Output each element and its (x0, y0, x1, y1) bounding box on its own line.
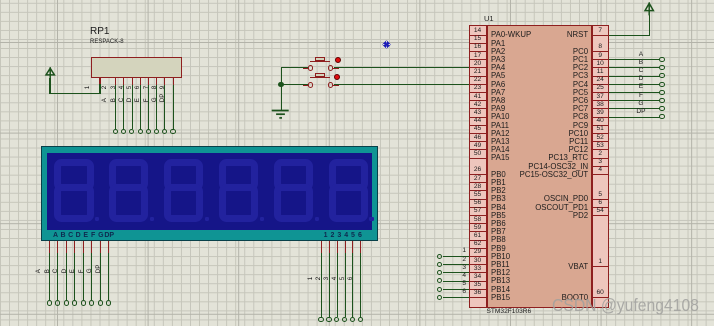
U1 pin 35 PB14 (469, 289, 486, 290)
display segment pin DP: stub, wire, label, terminal (108, 241, 109, 253)
U1 pin 38 PC7 (592, 108, 609, 109)
U1 pin 60 BOOT0 (592, 297, 609, 298)
U1 part number label STM32F103R6 (487, 309, 532, 316)
U1 pin 51 PC10 (592, 133, 609, 134)
6-digit seven-segment display module frame (41, 146, 379, 241)
wire: button 2 to U1 PA6 (334, 84, 469, 85)
wire: button 1 to U1 PA4 (334, 67, 469, 68)
U1 pin 15 PA1 (469, 43, 486, 44)
U1 pin 37 PC6 (592, 100, 609, 101)
display digit-select pin 2: stub, wire, label, terminal (329, 241, 330, 253)
U1 pin 6 OSCOUT_PD1 (592, 207, 609, 208)
wire + terminal: net 3 from U1 PB12 (443, 272, 470, 273)
display digit pin text 123456 (320, 232, 332, 239)
display digit-select pin 6: stub, wire, label, terminal (360, 241, 361, 253)
RP1 pin 3 (B): stub, wire, labels, terminal (123, 78, 124, 85)
wire + terminal: net 6 from U1 PB15 (443, 297, 470, 298)
watermark text (552, 297, 699, 315)
U1 pin 39 PC8 (592, 117, 609, 118)
U1 pin 28 PB2 (469, 190, 486, 191)
wire + terminal: net E from U1 PC5 (609, 92, 660, 93)
display digit 3 (seven segments + DP) (164, 159, 203, 191)
wire: horizontal corner to RP1 pin 1 (49, 93, 100, 94)
display segment pin F: stub, wire, label, terminal (91, 241, 92, 253)
display segment pin A: stub, wire, label, terminal (49, 241, 50, 253)
U1 pin 57 PB5 (469, 215, 486, 216)
U1 pin 56 PB4 (469, 207, 486, 208)
U1 pin 54 PD2 (592, 215, 609, 216)
wire: NRST arrow vertical (649, 15, 650, 36)
U1 pin 61 PB8 (469, 240, 486, 241)
wire: vertical up to RP1 pin 1 stub (99, 84, 100, 95)
wire + terminal: net C from U1 PC3 (609, 76, 660, 77)
U1 body (487, 25, 593, 308)
U1 pin 3 PC14-OSC32_IN (592, 166, 609, 167)
RP1 pin 2 (A): stub, wire, labels, terminal (115, 78, 116, 85)
wire + terminal: net F from U1 PC6 (609, 100, 660, 101)
microcontroller U1 reference label (484, 15, 494, 23)
display segment pin D: stub, wire, label, terminal (74, 241, 75, 253)
U1 pin 1 VBAT (592, 266, 609, 267)
RP1 pin 4 (C): stub, wire, labels, terminal (132, 78, 133, 85)
display digit 4 (seven segments + DP) (219, 159, 258, 191)
U1 pin 17 PA3 (469, 59, 486, 60)
U1 pin 33 PB12 (469, 272, 486, 273)
U1 pin 30 PB11 (469, 264, 486, 265)
U1 pin 2 PC13_RTC (592, 158, 609, 159)
U1 pin 42 PA9 (469, 108, 486, 109)
U1 pin 52 PC11 (592, 141, 609, 142)
junction node (278, 82, 284, 88)
U1 pin 58 PB6 (469, 223, 486, 224)
U1 pin 7 NRST (592, 35, 609, 36)
display segment pin E: stub, wire, label, terminal (83, 241, 84, 253)
display digit-select pin 5: stub, wire, label, terminal (352, 241, 353, 253)
U1 pin 26 PB0 (469, 174, 486, 175)
U1 pin 23 PA7 (469, 92, 486, 93)
display digit 6 (seven segments + DP) (329, 159, 368, 191)
U1 pin 29 PB10 (469, 256, 486, 257)
U1 pin 20 PA4 (469, 67, 486, 68)
U1 pin 49 PA14 (469, 149, 486, 150)
wire + terminal: net 2 from U1 PB11 (443, 264, 470, 265)
RP1 pin 1 stub (99, 78, 100, 84)
RP1 pin 7 (F): stub, wire, labels, terminal (156, 78, 157, 85)
U1 pin 36 PB15 (469, 297, 486, 298)
U1 pin 8 PC0 (592, 51, 609, 52)
U1 pin 43 PA10 (469, 117, 486, 118)
power symbol (VCC arrow) at NRST (643, 0, 659, 16)
U1 pin 46 PA13 (469, 141, 486, 142)
U1 pin 21 PA5 (469, 76, 486, 77)
U1 pin 41 PA8 (469, 100, 486, 101)
U1 pin 22 PA6 (469, 84, 486, 85)
U1 pin 11 PC3 (592, 76, 609, 77)
U1 pin 27 PB1 (469, 182, 486, 183)
U1 left pin-number band (469, 25, 486, 308)
U1 right pin-number band (592, 25, 609, 308)
wire + terminal: net DP from U1 PC8 (609, 117, 660, 118)
RP1 pin 5 (D): stub, wire, labels, terminal (140, 78, 141, 85)
origin marker (blue diamond) (381, 39, 392, 50)
U1 pin 44 PA11 (469, 125, 486, 126)
wire: to button 2 (PA6 net) (281, 84, 308, 85)
U1 pin 53 PC12 (592, 149, 609, 150)
U1 pin 34 PB13 (469, 281, 486, 282)
RP1 pin 8 (G): stub, wire, labels, terminal (164, 78, 165, 85)
U1 pin 50 PA15 (469, 158, 486, 159)
U1 pin 10 PC2 (592, 67, 609, 68)
wire: power arrow down to corner (49, 78, 50, 93)
display segment pin C: stub, wire, label, terminal (66, 241, 67, 253)
wire + terminal: net G from U1 PC7 (609, 108, 660, 109)
power symbol (VCC arrow) at RP1 pin 1 (43, 65, 59, 81)
wire: buttons common vertical (281, 67, 282, 111)
wire + terminal: net 1 from U1 PB10 (443, 256, 470, 257)
display segment pin name text ABCDEFG DP (50, 232, 62, 239)
U1 pin 5 OSCIN_PD0 (592, 199, 609, 200)
push button 2 (to PA6) (310, 77, 330, 78)
resistor pack RP1 value label RESPACK-8 (90, 39, 124, 45)
U1 pin 25 PC5 (592, 92, 609, 93)
U1 pin 16 PA2 (469, 51, 486, 52)
U1 pin 14 PA0-WKUP (469, 35, 486, 36)
wire: to button 1 (PA4 net) (281, 67, 308, 68)
display digit-select pin 4: stub, wire, label, terminal (345, 241, 346, 253)
U1 pin 9 PC1 (592, 59, 609, 60)
U1 pin 24 PC4 (592, 84, 609, 85)
RP1 pin 9 (DP): stub, wire, labels, terminal (173, 78, 174, 85)
RP1 pin 6 (E): stub, wire, labels, terminal (148, 78, 149, 85)
display inner area (47, 153, 372, 231)
display segment pin B: stub, wire, label, terminal (57, 241, 58, 253)
RP1 pin 1 number label (rotated) (85, 85, 91, 88)
push button 1 (to PA4) (310, 61, 330, 62)
U1 pin 55 PB3 (469, 199, 486, 200)
wire: NRST horizontal to U1 pin 7 (609, 35, 650, 36)
resistor pack RP1 body (91, 57, 183, 78)
display digit 1 (seven segments + DP) (54, 159, 93, 191)
display digit-select pin 1: stub, wire, label, terminal (321, 241, 322, 253)
U1 pin 4 PC15-OSC32_OUT (592, 174, 609, 175)
U1 pin 59 PB7 (469, 231, 486, 232)
display digit 2 (seven segments + DP) (109, 159, 148, 191)
wire + terminal: net B from U1 PC2 (609, 67, 660, 68)
wire + terminal: net D from U1 PC4 (609, 84, 660, 85)
display digit-select pin 3: stub, wire, label, terminal (337, 241, 338, 253)
wire + terminal: net A from U1 PC1 (609, 59, 660, 60)
wire + terminal: net 4 from U1 PB13 (443, 281, 470, 282)
display segment pin G: stub, wire, label, terminal (100, 241, 101, 253)
ground symbol (266, 105, 296, 123)
U1 pin 40 PC9 (592, 125, 609, 126)
display digit 5 (seven segments + DP) (274, 159, 313, 191)
wire + terminal: net 5 from U1 PB14 (443, 289, 470, 290)
resistor pack RP1 reference label (90, 27, 109, 37)
U1 pin 45 PA12 (469, 133, 486, 134)
U1 pin 62 PB9 (469, 248, 486, 249)
